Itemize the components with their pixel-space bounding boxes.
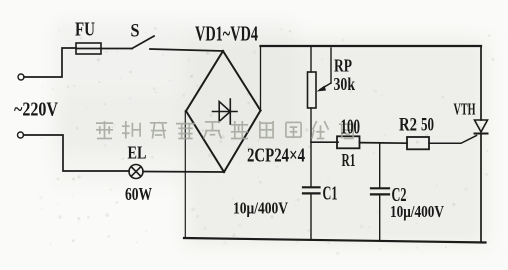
scan shading: [55, 22, 487, 246]
svg-text:~220V: ~220V: [14, 99, 58, 121]
potentiometer RP wiper arrow: [317, 48, 332, 92]
wire: [24, 48, 76, 77]
diode symbol inside bridge: [213, 99, 238, 124]
svg-text:R1: R1: [342, 150, 356, 170]
scan noise: [39, 27, 494, 255]
svg-text:S: S: [131, 21, 140, 42]
wire bridge left vertex down: [184, 111, 186, 238]
wire: [101, 48, 132, 50]
wire: [143, 171, 224, 174]
thyristor VTH: [475, 120, 488, 134]
svg-text:30k: 30k: [334, 74, 356, 94]
watermark 杭州将睿科技有限公司: [96, 121, 356, 139]
svg-text:C1: C1: [323, 183, 338, 205]
wire: [429, 136, 477, 144]
svg-text:50: 50: [421, 115, 434, 136]
svg-text:VD1~VD4: VD1~VD4: [195, 22, 258, 46]
wire node bridge plus to top bus: [260, 46, 262, 110]
svg-text:RP: RP: [334, 56, 352, 76]
wire cathode down: [480, 134, 482, 243]
svg-text:10μ/400V: 10μ/400V: [233, 199, 289, 218]
potentiometer RP: [308, 46, 317, 142]
svg-text:R2: R2: [399, 115, 417, 136]
wire: [360, 142, 408, 145]
svg-text:10μ/400V: 10μ/400V: [390, 202, 445, 221]
svg-text:EL: EL: [128, 143, 147, 163]
wire: [24, 135, 130, 171]
svg-text:60W: 60W: [125, 184, 152, 204]
svg-text:2CP24×4: 2CP24×4: [247, 145, 305, 167]
terminal lower: [18, 132, 24, 138]
svg-text:100: 100: [341, 115, 361, 139]
terminal upper: [18, 74, 24, 80]
wire bottom bus: [184, 238, 486, 243]
lamp EL: [129, 165, 143, 179]
bridge rectifier VD1~VD4: [186, 51, 261, 172]
fuse FU: [76, 43, 101, 54]
wire main bus: [311, 141, 338, 143]
svg-text:VTH: VTH: [454, 100, 476, 119]
wire top bus: [261, 45, 482, 47]
resistor R1: [337, 136, 360, 148]
capacitor C2: [371, 143, 389, 241]
resistor R2: [407, 137, 429, 149]
capacitor C1: [303, 142, 320, 239]
wire right side anode: [480, 46, 482, 120]
switch S: [132, 36, 223, 51]
svg-text:FU: FU: [75, 19, 95, 41]
